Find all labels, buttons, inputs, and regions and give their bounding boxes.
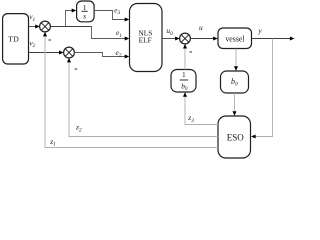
block vessel <box>218 28 252 49</box>
wire z1: ESO left output to S1 minus input <box>43 32 218 148</box>
wire b0 bottom to ESO top <box>233 93 237 116</box>
label u <box>199 23 203 32</box>
minus sign at S1 <box>48 39 51 41</box>
block 1/b0 <box>171 70 196 93</box>
svg-text:ESO: ESO <box>227 132 245 142</box>
summing junction S1 <box>40 21 51 32</box>
label u0 <box>166 26 173 37</box>
block b0 <box>221 71 249 93</box>
block TD <box>3 14 29 64</box>
wire e2: S2 output into NLS ELF <box>74 53 129 59</box>
label e2 <box>116 48 122 59</box>
svg-text:s: s <box>83 12 86 21</box>
wire branch node to integrator input <box>66 9 77 27</box>
summing junction S3 <box>180 33 191 44</box>
minus sign at S2 <box>75 68 78 70</box>
label v1 <box>29 12 35 23</box>
label z1 <box>49 137 56 148</box>
svg-text:vessel: vessel <box>225 35 245 44</box>
block NLS ELF <box>130 4 163 72</box>
svg-text:1: 1 <box>182 70 186 79</box>
wire y feedback down to ESO right input <box>251 39 273 139</box>
label e1 <box>116 28 122 39</box>
svg-text:u: u <box>199 23 203 32</box>
label v2 <box>29 38 35 49</box>
label e3 <box>114 5 120 16</box>
wire v2: TD output to summing junction S2 <box>29 51 64 55</box>
block ESO <box>218 116 251 158</box>
wire S1 output toward e1 <box>50 26 91 28</box>
svg-text:y: y <box>257 26 262 35</box>
label z2 <box>75 123 82 134</box>
wire z3: ESO left output up to 1/b0 <box>183 92 218 124</box>
summing junction S2 <box>64 47 75 58</box>
label y <box>257 26 262 35</box>
block integrator 1/s <box>77 1 95 22</box>
wire y: vessel output to right edge <box>252 37 295 41</box>
minus sign at S3 <box>189 51 192 53</box>
wire vessel bottom to b0 <box>234 49 238 71</box>
wire u: S3 output to vessel <box>190 37 218 41</box>
svg-text:ELF: ELF <box>139 36 152 45</box>
label z3 <box>187 113 194 124</box>
wire v1: TD output to summing junction S1 <box>29 25 40 29</box>
wire 1/b0 output up to S3 minus input <box>183 44 187 70</box>
svg-text:TD: TD <box>8 35 19 44</box>
wire u0: NLS ELF output to summing junction S3 <box>162 37 180 41</box>
wire e3: integrator output to NLS ELF <box>94 11 129 22</box>
wire z2: ESO left output to S2 minus input <box>67 58 218 137</box>
wire e1: step down into NLS ELF <box>92 27 130 41</box>
